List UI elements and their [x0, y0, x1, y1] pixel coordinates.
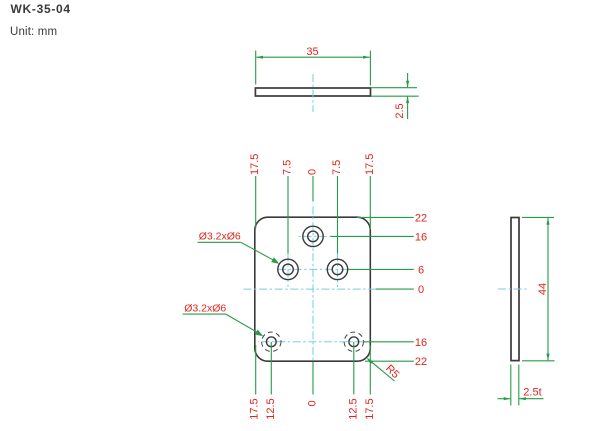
part number title [11, 2, 71, 16]
svg-text:17.5: 17.5 [249, 154, 261, 175]
bottom hole left inner circle [266, 337, 276, 347]
dim 2.5 leader line below [407, 97, 409, 120]
dim 35 extension line right [369, 51, 371, 86]
R5 leader line [368, 359, 394, 381]
svg-text:35: 35 [306, 46, 318, 58]
hole note top underline [198, 241, 241, 243]
svg-text:2.5t: 2.5t [523, 386, 541, 398]
R5 leader arrow [367, 358, 374, 365]
svg-text:R5: R5 [383, 363, 401, 381]
hole note bottom leader [226, 314, 260, 334]
bottom hole right dashed outer circle [344, 332, 363, 351]
svg-text:16: 16 [415, 337, 427, 349]
front view top extension line 0 [312, 176, 314, 202]
centerline horizontal top hole [297, 235, 331, 237]
dim 35 arrow right [363, 56, 370, 59]
hole note bottom leader arrow [255, 330, 263, 337]
centerline vertical mid hole left [287, 254, 289, 288]
top hole inner circle [308, 231, 319, 242]
top hole outer circle [303, 226, 323, 246]
svg-text:6: 6 [418, 264, 424, 276]
dim 2.5t right arrow [519, 397, 526, 400]
dim 2.5 arrow down [406, 81, 409, 88]
dim 44 extension line top [522, 216, 554, 218]
bottom hole left dashed outer circle [262, 332, 281, 351]
svg-text:16: 16 [415, 231, 427, 243]
svg-text:12.5: 12.5 [347, 398, 359, 419]
hole note top leader arrow [271, 257, 279, 264]
dim 44 dimension line [547, 218, 549, 360]
svg-text:44: 44 [537, 283, 549, 295]
mid hole right inner circle [332, 264, 343, 275]
front view top extension line 7.5 right [337, 176, 339, 254]
centerline vertical mid hole right [337, 254, 339, 288]
svg-text:7.5: 7.5 [331, 160, 343, 175]
mid hole right outer circle [327, 259, 347, 279]
dim 2.5t left arrow [504, 397, 511, 400]
svg-text:17.5: 17.5 [364, 398, 376, 419]
bottom extension line 12.5 right [353, 342, 355, 395]
bottom extension line 12.5 left [270, 342, 272, 395]
front view top extension line 17.5 right [369, 176, 371, 230]
svg-text:22: 22 [415, 356, 427, 368]
centerline vertical main [312, 204, 314, 361]
svg-text:0: 0 [418, 284, 424, 296]
right dim line 16 bottom [363, 341, 414, 343]
unit note [10, 26, 57, 38]
dim 2.5 extension line top [372, 87, 418, 89]
dim 2.5t left arrow line [498, 398, 511, 400]
bottom hole right inner circle [349, 337, 359, 347]
centerline horizontal main 0 [242, 288, 376, 290]
dim 2.5 extension line bottom [372, 95, 419, 97]
dim 2.5 arrow up [406, 97, 409, 104]
hole note bottom underline [183, 313, 226, 315]
dim 2.5 leader line above [407, 73, 409, 87]
dim 44 arrow bottom [546, 354, 549, 361]
bottom extension line 0 [312, 362, 314, 395]
dim 35 dimension line [256, 56, 369, 58]
dim 44 arrow top [546, 218, 549, 225]
front view top extension line 17.5 left [255, 176, 257, 229]
svg-text:12.5: 12.5 [265, 398, 277, 419]
dim 44 extension line bottom [522, 360, 555, 362]
svg-text:17.5: 17.5 [364, 154, 376, 175]
mid hole left outer circle [278, 259, 298, 279]
top view vertical centerline [312, 74, 314, 112]
bottom extension line 17.5 left [255, 345, 257, 395]
svg-text:0: 0 [307, 400, 319, 406]
mid hole left inner circle [283, 264, 294, 275]
centerline horizontal bottom holes [258, 341, 362, 343]
hole note top leader [241, 242, 276, 261]
right dim line 6 [348, 268, 414, 270]
dim 2.5t right arrow line [519, 398, 543, 400]
svg-text:22: 22 [415, 212, 427, 224]
top view plate outline [255, 88, 370, 96]
centerline horizontal mid holes [277, 268, 351, 270]
front view top extension line 7.5 left [287, 176, 289, 254]
side view plate outline [511, 218, 519, 361]
svg-text:17.5: 17.5 [249, 398, 261, 419]
front view plate outline [255, 217, 370, 361]
dim 2.5t extension line left [510, 365, 512, 406]
svg-text:0: 0 [307, 169, 319, 175]
dim 35 arrow left [256, 56, 263, 59]
right dim line 16 top [331, 235, 414, 237]
side view centerline [498, 288, 528, 290]
bottom extension line 17.5 right [369, 345, 371, 395]
svg-text:2.5: 2.5 [394, 103, 406, 118]
right dim line 22 top [357, 216, 414, 218]
dim 35 extension line left [255, 51, 257, 85]
right dim line 0 [376, 288, 414, 290]
svg-text:Ø3.2xØ6: Ø3.2xØ6 [199, 230, 241, 242]
right dim line 22 bottom [365, 360, 414, 362]
svg-text:7.5: 7.5 [282, 160, 294, 175]
svg-text:Ø3.2xØ6: Ø3.2xØ6 [184, 303, 226, 315]
dim 2.5t extension line right [518, 365, 520, 406]
